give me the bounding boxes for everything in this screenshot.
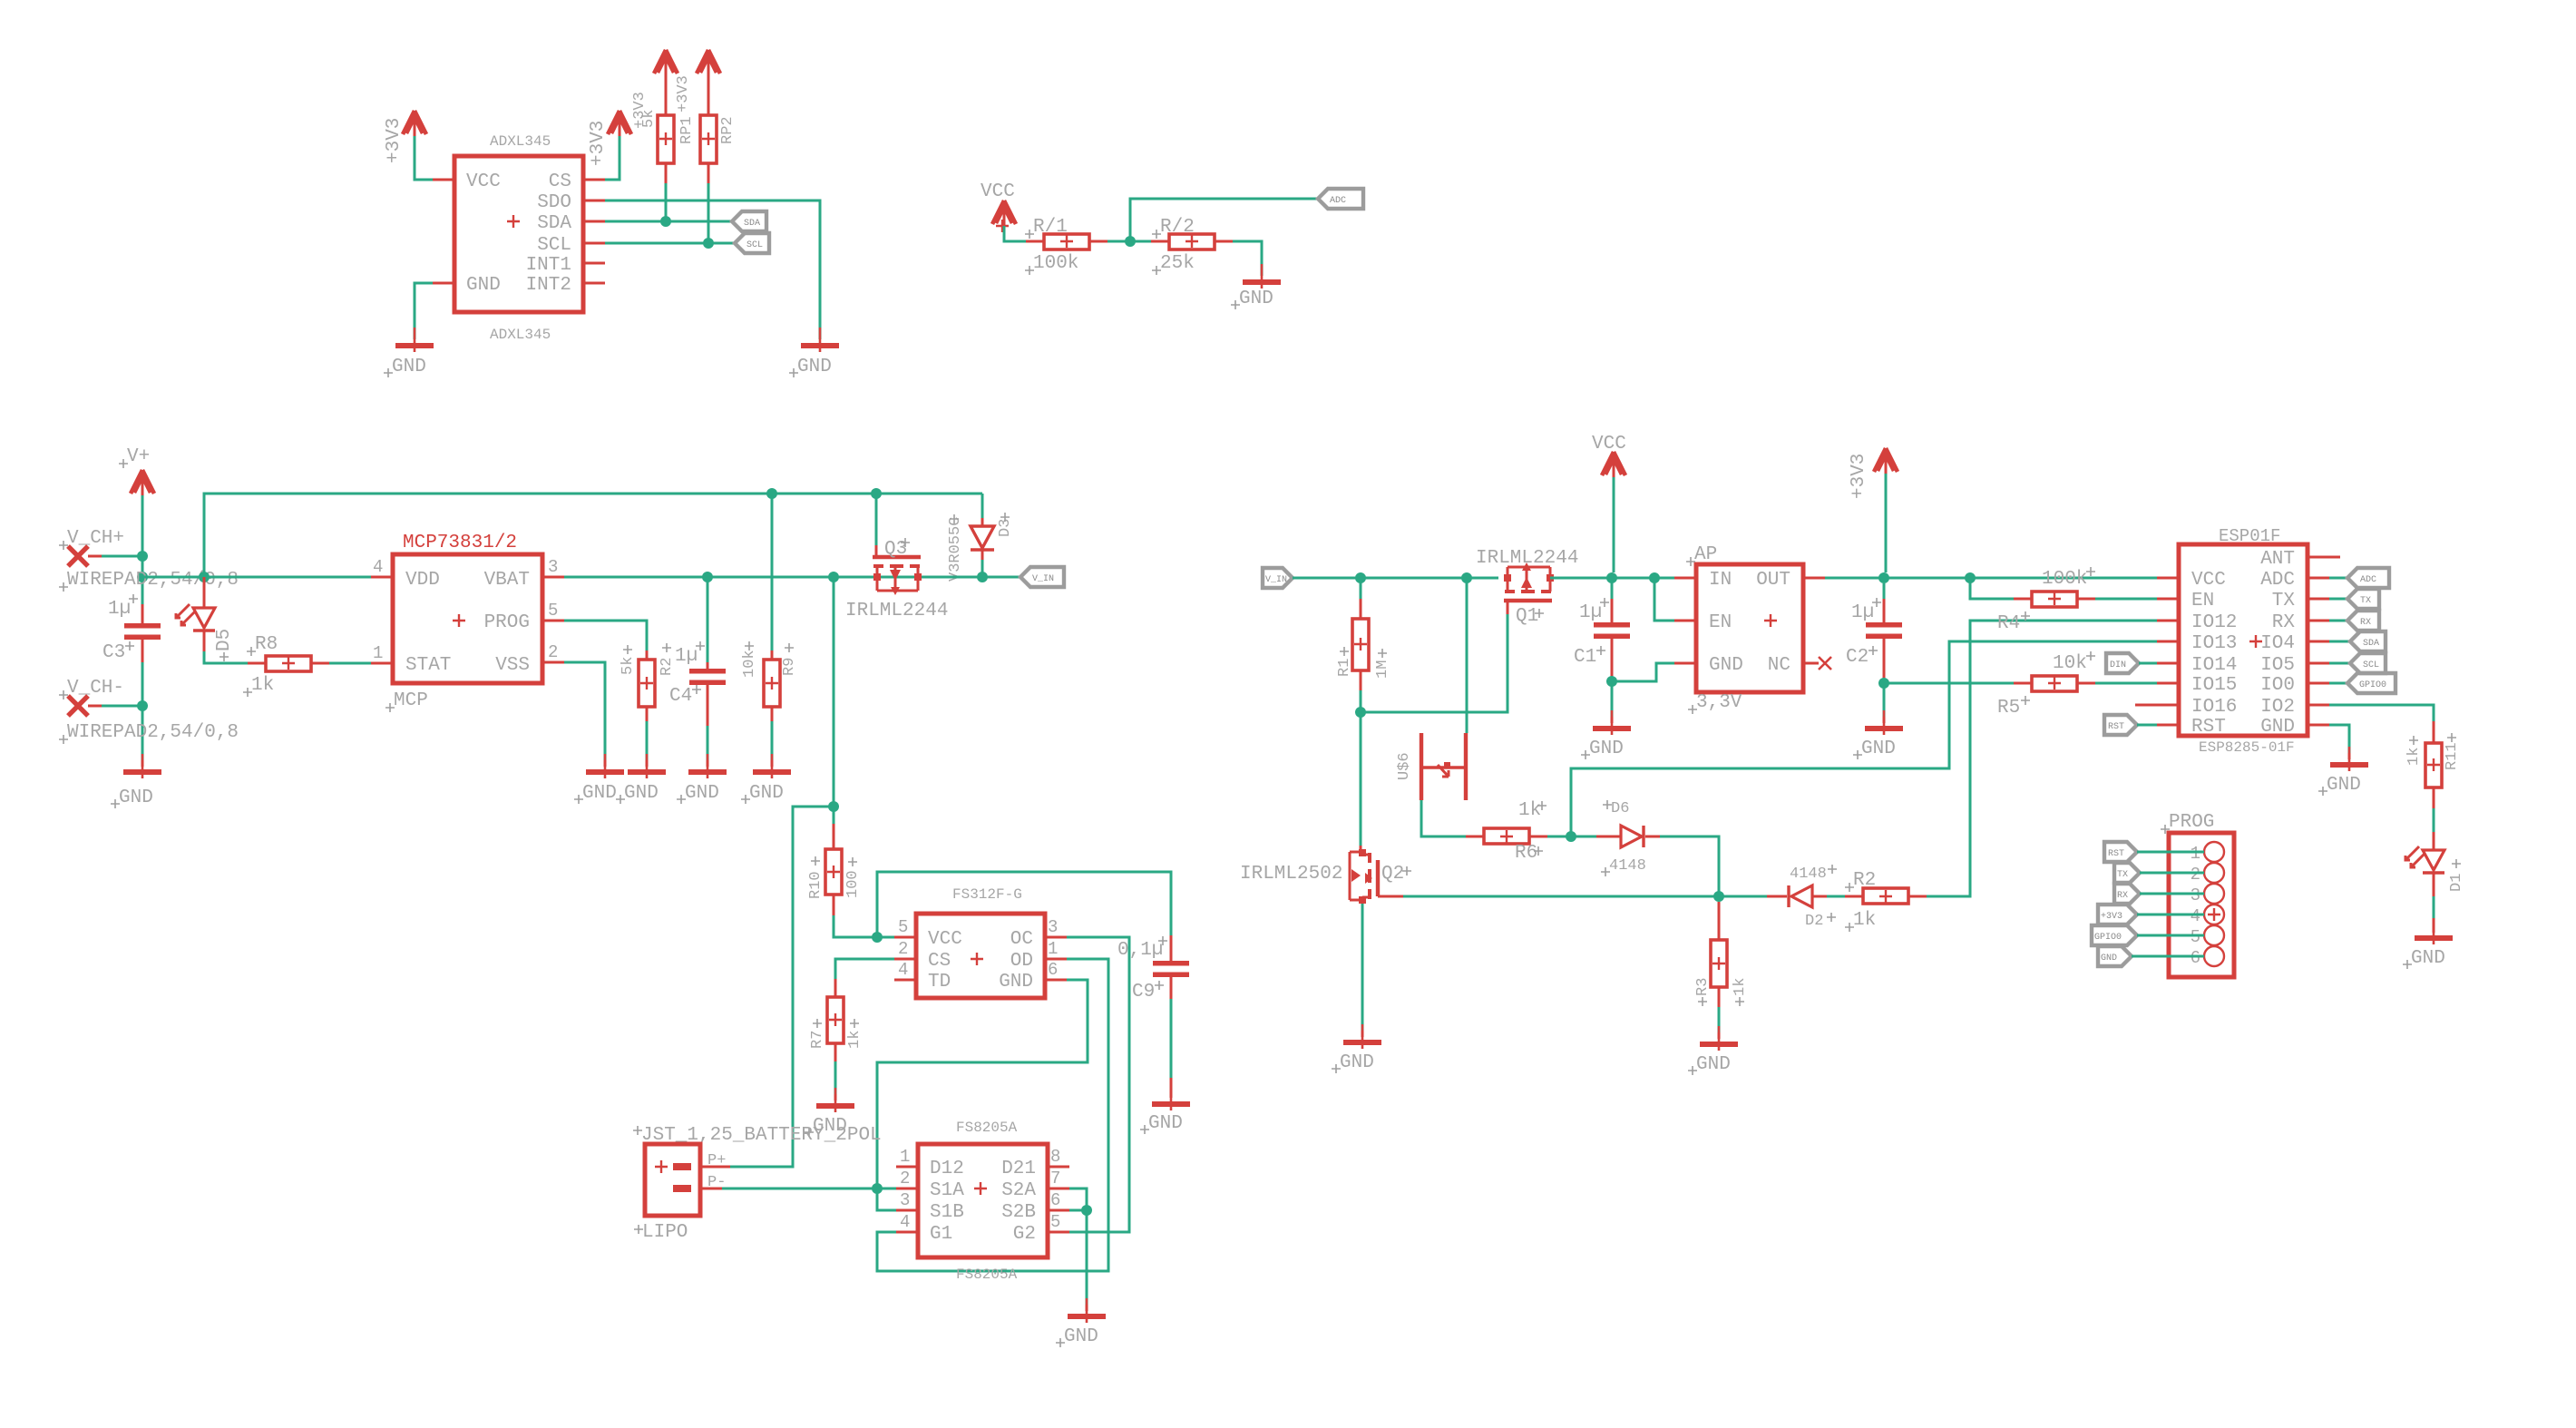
wire VCC to R/1 [1004, 226, 1026, 241]
pin INT2 stub [583, 282, 605, 285]
wire Q1 to C1 [1550, 577, 1674, 580]
svg-text:3,3V: 3,3V [1696, 692, 1742, 713]
svg-text:1µ: 1µ [1851, 602, 1874, 623]
pin P+ stub [700, 1166, 730, 1169]
testpoint U$1 [1396, 578, 1467, 800]
resistor R11 1k [2405, 721, 2461, 808]
pin IO2 stub [2308, 704, 2329, 707]
svg-text:GND: GND [2101, 954, 2117, 963]
capacitor C4 1u [669, 577, 726, 767]
svg-text:VCC: VCC [1592, 434, 1626, 455]
wire S1B tie [877, 1188, 896, 1210]
pin 3 VBAT stub [542, 576, 564, 579]
svg-text:5k: 5k [640, 110, 658, 128]
junction VDD tap [137, 572, 148, 582]
svg-text:R/1: R/1 [1033, 217, 1068, 238]
svg-text:1k: 1k [1853, 910, 1876, 931]
svg-text:IO12: IO12 [2191, 612, 2237, 633]
wire D5 to R8 [204, 651, 248, 663]
svg-text:SCL: SCL [2363, 660, 2379, 670]
svg-text:1: 1 [900, 1147, 910, 1167]
junction rail/R9 [766, 488, 777, 499]
svg-text:IRLML2244: IRLML2244 [1476, 548, 1578, 569]
flag ADC [1318, 189, 1363, 209]
svg-text:R1: R1 [1336, 659, 1353, 677]
pin 1 STAT stub [371, 662, 393, 665]
junction VBAT/battery [828, 572, 839, 582]
junction R6/D6/IO13 [1566, 831, 1576, 842]
wire VBAT down to battery node [833, 577, 835, 824]
svg-text:WIREPAD2,54/0,8: WIREPAD2,54/0,8 [67, 722, 239, 743]
connector X LIPO JST_1,25_BATTERY_2POL [633, 1125, 882, 1243]
svg-text:GND: GND [1709, 655, 1743, 676]
flag V_IN (right section) [1263, 568, 1293, 588]
svg-text:STAT: STAT [405, 655, 451, 676]
wire D1 to GND [2433, 896, 2435, 918]
wire R8 to STAT [329, 662, 371, 665]
pin SCL stub [583, 242, 605, 245]
svg-text:G2: G2 [1013, 1224, 1036, 1245]
wire SCL net [605, 242, 735, 245]
svg-text:INT2: INT2 [526, 275, 571, 296]
svg-text:+3V3: +3V3 [588, 121, 609, 166]
pin TX stub [2308, 598, 2329, 601]
wire GND pin [415, 283, 433, 339]
svg-text:RST: RST [2191, 717, 2226, 738]
wire VBAT net [564, 576, 939, 579]
flag TX (PROG 2) [2114, 863, 2204, 883]
wire VCC to C9 [877, 872, 1171, 937]
svg-text:GND: GND [1861, 738, 1896, 759]
wire S2A/S2B to GND [1069, 1188, 1087, 1305]
svg-text:CS: CS [549, 171, 571, 192]
wire V_IN main rail [1293, 577, 1498, 580]
svg-text:PROG: PROG [2169, 812, 2214, 833]
svg-text:GND: GND [2327, 775, 2361, 796]
svg-text:WIREPAD2,54/0,8: WIREPAD2,54/0,8 [67, 570, 239, 591]
pin NC stub (no connect) [1803, 662, 1819, 665]
resistor R/2 25k [1151, 217, 1233, 275]
svg-text:GND: GND [685, 783, 719, 804]
svg-text:C9: C9 [1132, 982, 1155, 1003]
ground GND (SDO) [801, 328, 839, 352]
flag GPIO0 (PROG 5) [2092, 925, 2204, 945]
capacitor C3 1u [102, 594, 161, 663]
junction V_CH- [137, 700, 148, 711]
svg-text:ADC: ADC [2360, 575, 2376, 585]
ground GND (prog R) [628, 754, 666, 778]
svg-text:5: 5 [548, 601, 558, 621]
svg-text:V_IN: V_IN [1032, 574, 1054, 584]
svg-text:TX: TX [2117, 870, 2128, 880]
pin IO13 stub [2157, 641, 2179, 643]
svg-text:GPIO0: GPIO0 [2094, 933, 2122, 943]
svg-text:+3V3: +3V3 [675, 75, 692, 112]
svg-text:C3: C3 [102, 642, 125, 663]
svg-text:1µ: 1µ [108, 599, 131, 620]
junction VCC/C9 rail [872, 932, 883, 943]
flag RST (ESP) [2104, 715, 2157, 735]
pin 6 GND stub [1045, 979, 1067, 982]
svg-text:1: 1 [373, 643, 383, 663]
svg-text:ADXL345: ADXL345 [490, 133, 551, 150]
resistor R7 1k [809, 979, 864, 1061]
svg-text:S1B: S1B [930, 1202, 964, 1223]
connector PROG [2161, 812, 2234, 977]
pin IN stub [1674, 577, 1696, 580]
junction S2B [1081, 1205, 1092, 1216]
ground GND (C3) [141, 760, 144, 767]
svg-text:5k: 5k [620, 657, 637, 675]
svg-text:U$6: U$6 [1396, 752, 1413, 780]
svg-text:100k: 100k [2042, 569, 2087, 590]
pin 5 PROG stub [542, 620, 564, 622]
flag RX (ESP) [2329, 611, 2379, 631]
svg-text:GND: GND [1696, 1054, 1731, 1075]
wire Q2 gate to IO12 node [1403, 895, 1697, 898]
supply +3V3 arrow (out) [1874, 448, 1898, 474]
ground GND (Q2) [1343, 1024, 1381, 1049]
pin 5 G2 stub [1048, 1231, 1069, 1234]
capacitor C2 1u [1846, 583, 1902, 683]
wire C3 to V_CH- / GND [141, 662, 144, 760]
svg-text:R6: R6 [1515, 843, 1537, 864]
pin SDO stub [583, 200, 605, 202]
svg-text:6: 6 [1048, 960, 1058, 980]
svg-text:4: 4 [900, 1212, 910, 1232]
wire junction to IO13 [1571, 641, 2157, 836]
wire Q2 source to GND [1361, 904, 1364, 1031]
svg-text:6: 6 [1050, 1190, 1060, 1210]
svg-text:R10: R10 [807, 871, 825, 899]
svg-text:GND: GND [1148, 1113, 1183, 1134]
pin IO5 stub [2308, 662, 2329, 665]
resistor R3 1k [1694, 902, 1749, 1039]
svg-text:LIPO: LIPO [642, 1222, 688, 1243]
IC MCP73831/2 [385, 533, 542, 712]
IC ESP01F module [2179, 526, 2308, 756]
svg-text:IRLML2502: IRLML2502 [1240, 864, 1342, 885]
svg-text:R/2: R/2 [1160, 217, 1195, 238]
pin 7 S2A stub [1048, 1188, 1069, 1190]
ground GND (VSS) [586, 754, 624, 778]
wire P- to S1A [722, 1188, 896, 1190]
wire AP GND return [1612, 663, 1674, 681]
wire battery node to P+ [730, 807, 834, 1167]
flag SCL [735, 233, 769, 253]
wire C1 to GND [1611, 681, 1614, 717]
svg-text:1k: 1k [2405, 748, 2423, 766]
svg-text:TX: TX [2272, 591, 2296, 611]
svg-text:GND: GND [2411, 948, 2445, 969]
pin P- stub [700, 1188, 722, 1190]
wire Q3 to V_IN flag [939, 576, 1020, 579]
svg-text:D12: D12 [930, 1159, 964, 1179]
svg-text:OC: OC [1010, 929, 1033, 950]
svg-text:TD: TD [928, 972, 951, 993]
svg-text:3: 3 [1048, 917, 1058, 937]
flag SDA [732, 211, 766, 231]
svg-text:D2: D2 [1805, 913, 1823, 930]
svg-text:GND: GND [624, 783, 659, 804]
svg-text:GND: GND [466, 275, 501, 296]
svg-text:C4: C4 [669, 686, 692, 707]
svg-text:10k: 10k [2053, 653, 2087, 674]
pin EN stub [2157, 598, 2179, 601]
svg-text:V3R055C: V3R055C [947, 517, 964, 582]
svg-text:MCP73831/2: MCP73831/2 [403, 533, 517, 553]
svg-text:SDA: SDA [2363, 639, 2379, 649]
svg-text:IN: IN [1709, 570, 1732, 591]
svg-text:IO16: IO16 [2191, 697, 2237, 718]
wire R/1 to R/2 [1107, 240, 1151, 243]
pin ADC stub [2308, 577, 2329, 580]
resistor R6 1k [1466, 800, 1547, 864]
wire OUT to ESP VCC [1825, 577, 2157, 580]
svg-text:0,1µ: 0,1µ [1117, 940, 1163, 961]
svg-text:3: 3 [548, 557, 558, 577]
svg-text:ADXL345: ADXL345 [490, 327, 551, 343]
wire R7 to GND [834, 1061, 837, 1094]
svg-text:INT1: INT1 [526, 255, 571, 276]
pin GND stub [2308, 724, 2329, 727]
svg-text:1: 1 [1048, 939, 1058, 959]
svg-text:GND: GND [119, 787, 153, 808]
wire CS to R7 [835, 959, 894, 979]
pin RX stub [2308, 620, 2329, 622]
svg-text:OUT: OUT [1756, 570, 1791, 591]
svg-text:IO2: IO2 [2260, 697, 2295, 718]
junction VBAT/C4 [702, 572, 713, 582]
junction D5 top / rail [199, 572, 210, 582]
svg-text:GND: GND [797, 357, 832, 377]
svg-text:1: 1 [2191, 844, 2200, 864]
pin RST stub [2157, 724, 2179, 727]
wire R11 to D1 [2433, 808, 2435, 832]
pin 2 CS stub [894, 958, 916, 961]
junction rail/Q3 gate [871, 488, 882, 499]
transistor Q1 IRLML2244 (P-MOSFET) [1476, 548, 1578, 627]
svg-text:GND: GND [749, 783, 784, 804]
resistor R2 1k [1827, 870, 1927, 932]
svg-text:ADC: ADC [1330, 196, 1346, 206]
svg-text:GND: GND [1239, 289, 1273, 309]
wire GND(6) to S1 [877, 980, 1088, 1188]
svg-text:100: 100 [844, 870, 862, 898]
svg-text:IRLML2244: IRLML2244 [845, 601, 948, 621]
svg-text:2: 2 [548, 642, 558, 662]
supply +3V3 arrow (VCC) [403, 111, 426, 136]
resistor R1 1M [1336, 578, 1391, 712]
wire PROG net [564, 621, 647, 650]
junction P-/S1 [872, 1183, 883, 1194]
ground GND (C1) [1593, 710, 1631, 735]
svg-text:RX: RX [2360, 618, 2371, 628]
junction divider node [1125, 236, 1136, 247]
svg-text:V_CH-: V_CH- [67, 678, 124, 699]
flag V_IN (left) [1020, 567, 1064, 587]
svg-text:SCL: SCL [746, 240, 763, 250]
svg-text:VCC: VCC [981, 181, 1015, 202]
svg-text:Q1: Q1 [1516, 606, 1538, 627]
wire R1 to Q1 gate [1361, 614, 1508, 712]
svg-text:FS8205A: FS8205A [956, 1267, 1018, 1283]
svg-text:SDA: SDA [537, 213, 571, 234]
svg-text:G1: G1 [930, 1224, 952, 1245]
junction gate/D2/R3 [1713, 891, 1724, 902]
svg-text:C2: C2 [1846, 647, 1869, 668]
wire VCC to +3V3 [415, 136, 433, 180]
svg-text:R5: R5 [1997, 698, 2020, 719]
svg-text:VCC: VCC [466, 171, 501, 192]
wire C2 to GND [1883, 683, 1886, 717]
svg-text:10k: 10k [741, 650, 758, 678]
svg-text:VSS: VSS [495, 655, 530, 676]
resistor R9 10k [741, 494, 798, 767]
svg-text:D5: D5 [214, 629, 235, 651]
svg-text:RX: RX [2272, 612, 2296, 633]
svg-text:4: 4 [373, 557, 383, 577]
diode D2 4148 [1697, 865, 1837, 930]
svg-text:RP2: RP2 [719, 116, 737, 144]
svg-text:5: 5 [2191, 927, 2200, 947]
svg-text:DIN: DIN [2110, 660, 2126, 670]
svg-text:IO15: IO15 [2191, 675, 2237, 696]
svg-text:1µ: 1µ [675, 646, 698, 667]
svg-text:SDO: SDO [537, 192, 571, 213]
wire R2 to IO12 [1927, 621, 2157, 896]
svg-text:FS8205A: FS8205A [956, 1120, 1018, 1136]
svg-text:5: 5 [1050, 1212, 1060, 1232]
svg-text:SCL: SCL [537, 235, 571, 256]
wire SDO net [605, 201, 820, 339]
svg-text:EN: EN [2191, 591, 2214, 611]
junction EN tap [1649, 572, 1660, 583]
ground GND (C4) [688, 754, 727, 778]
wire S2B tie [1069, 1209, 1087, 1212]
junction SCL/RP2 [703, 238, 714, 249]
ground GND (ESP) [2330, 747, 2368, 771]
svg-text:C1: C1 [1574, 647, 1596, 668]
IC AP regulator 3,3V [1686, 544, 1803, 714]
wire R/2 to GND [1233, 241, 1262, 276]
wire R1 to Q2 drain [1360, 712, 1362, 846]
svg-text:RST: RST [2108, 849, 2124, 859]
svg-text:25k: 25k [1160, 253, 1195, 274]
svg-text:1M: 1M [1374, 660, 1391, 679]
svg-text:CS: CS [928, 951, 951, 972]
svg-text:D1: D1 [2448, 874, 2465, 892]
svg-text:+3V3: +3V3 [1849, 454, 1869, 499]
svg-text:2: 2 [900, 1169, 910, 1188]
svg-text:1k: 1k [1518, 800, 1541, 821]
ground GND (R3) [1700, 1026, 1738, 1051]
svg-text:D6: D6 [1611, 800, 1629, 817]
led D5 [176, 577, 235, 661]
pin 4 VDD stub [371, 576, 393, 579]
ground GND (C9) [1152, 1086, 1190, 1110]
svg-text:GND: GND [392, 357, 426, 377]
svg-text:EN: EN [1709, 612, 1732, 633]
pin 4 TD stub [894, 979, 916, 982]
flag SDA (IO4) [2329, 631, 2386, 651]
svg-text:Q2: Q2 [1381, 864, 1404, 885]
wire D6 to IO12 node [1660, 836, 1719, 896]
pin EN stub [1674, 620, 1696, 622]
svg-text:OD: OD [1010, 951, 1033, 972]
svg-text:5: 5 [898, 917, 908, 937]
pin 5 VCC stub [894, 936, 916, 939]
junction R1 bottom [1355, 707, 1366, 718]
IC FS312F-G battery protection [916, 886, 1045, 998]
svg-text:S2B: S2B [1001, 1202, 1036, 1223]
svg-text:ESP01F: ESP01F [2219, 526, 2280, 546]
wire OC to G2 [1067, 937, 1129, 1232]
junction TP tap [1461, 572, 1472, 583]
capacitor C9 0,1u [1117, 935, 1189, 1098]
pin 4 G1 stub [896, 1231, 918, 1234]
IC FS8205A dual MOSFET [918, 1120, 1048, 1283]
svg-text:R2: R2 [659, 658, 676, 676]
svg-text:IO13: IO13 [2191, 633, 2237, 654]
svg-text:R9: R9 [781, 658, 798, 676]
svg-text:D21: D21 [1001, 1159, 1036, 1179]
pin GND stub [433, 282, 454, 285]
svg-text:2: 2 [2191, 865, 2200, 885]
junction battery node [828, 801, 839, 812]
svg-text:ANT: ANT [2260, 549, 2295, 570]
wire SDA net [605, 220, 732, 223]
led D1 [2405, 832, 2465, 896]
resistor R2 5k (prog) [620, 643, 676, 721]
pin IO0 stub [2308, 682, 2329, 685]
diode D3 [947, 494, 1014, 582]
ground GND (R9) [753, 754, 791, 778]
svg-text:+3V3: +3V3 [384, 118, 405, 163]
wire node to ADC flag [1130, 199, 1318, 241]
transistor Q2 IRLML2502 (N-MOSFET) [1240, 846, 1411, 904]
junction SDA/RP1 [660, 216, 671, 227]
wire ESP GND pin [2329, 725, 2349, 753]
svg-text:RST: RST [2108, 722, 2124, 732]
flag +3V3 (PROG 4) [2098, 905, 2204, 924]
svg-text:1k: 1k [846, 1031, 864, 1049]
wire V+ vertical [141, 495, 144, 623]
svg-text:3: 3 [2191, 885, 2200, 905]
svg-text:100k: 100k [1033, 253, 1078, 274]
resistor R8 1k [243, 634, 329, 697]
ground GND (D1) [2415, 920, 2453, 944]
pin IO16 stub (nc) [2135, 704, 2179, 707]
ground GND (divider) [1243, 264, 1281, 289]
pin IO12 stub [2157, 620, 2179, 622]
flag TX (ESP) [2329, 589, 2379, 609]
pin SDA stub [583, 220, 605, 223]
svg-text:VCC: VCC [928, 929, 962, 950]
flag GND (PROG 6) [2098, 946, 2204, 966]
pin 3 OC stub [1045, 936, 1067, 939]
pin CS stub [583, 179, 605, 181]
diode D6 4148 [1596, 800, 1660, 876]
wire EN tie to IN [1654, 578, 1674, 621]
svg-text:S1A: S1A [930, 1180, 964, 1201]
svg-text:IO14: IO14 [2191, 655, 2237, 676]
svg-text:GPIO0: GPIO0 [2359, 680, 2386, 690]
svg-text:FS312F-G: FS312F-G [952, 886, 1022, 903]
wire R6 to D6 junction [1547, 836, 1596, 838]
flag GPIO0 (IO0) [2329, 673, 2395, 693]
pin 1 D12 stub [896, 1166, 918, 1169]
